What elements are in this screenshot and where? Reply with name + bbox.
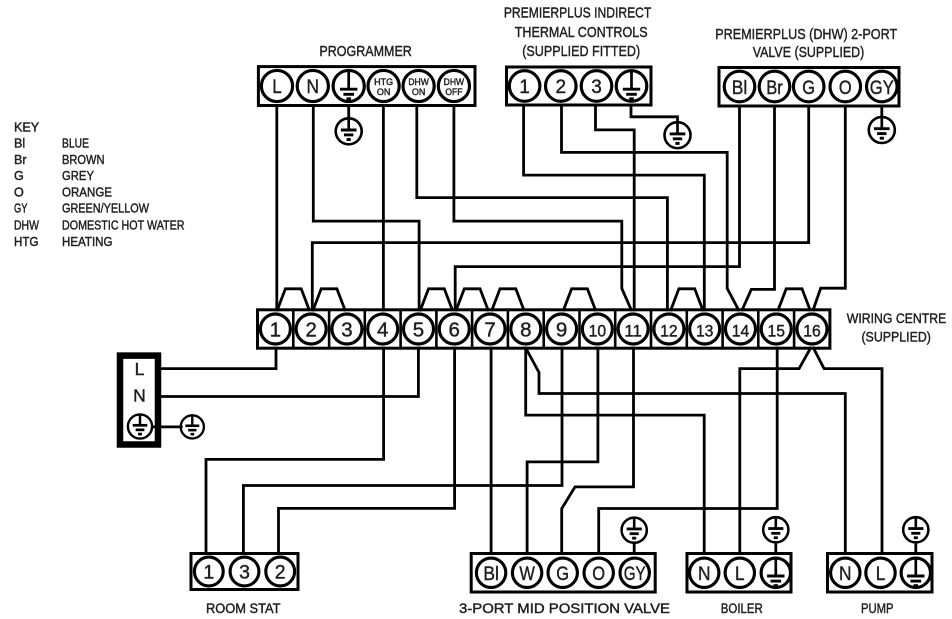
svg-text:(SUPPLIED): (SUPPLIED) (861, 329, 931, 344)
wire thermal 3 to terminal 11 (596, 105, 635, 310)
earth symbol below programmer (347, 106, 350, 119)
wire terminal 16 to boiler L (740, 348, 811, 553)
thermal terminal 3 (581, 71, 612, 102)
3-port valve box (471, 554, 655, 593)
svg-text:OFF: OFF (445, 87, 462, 97)
wiring centre terminal 7 (475, 314, 505, 344)
wiring centre terminal 1 (260, 314, 290, 344)
earth symbol below 2-port valve GY (880, 106, 883, 117)
svg-text:L: L (135, 359, 145, 379)
svg-text:G: G (14, 169, 24, 183)
room stat box (191, 554, 298, 590)
wire programmer DHW OFF to terminal 11 (454, 106, 631, 310)
svg-text:BROWN: BROWN (62, 153, 105, 167)
svg-text:Bl: Bl (732, 77, 748, 99)
2-port valve terminal Br (759, 71, 790, 102)
link terminal 7 to terminal 8 (492, 289, 524, 310)
wiring centre terminal 2 (296, 314, 326, 344)
svg-text:3-PORT MID POSITION VALVE: 3-PORT MID POSITION VALVE (459, 601, 670, 616)
svg-text:15: 15 (767, 323, 785, 341)
programmer terminal DHW OFF (438, 70, 469, 101)
link terminal 1 to terminal 2 (277, 289, 309, 310)
svg-text:3: 3 (591, 77, 602, 98)
svg-text:7: 7 (484, 319, 495, 342)
programmer terminal N (297, 70, 328, 101)
svg-text:9: 9 (556, 319, 567, 342)
svg-text:VALVE (SUPPLIED): VALVE (SUPPLIED) (753, 44, 865, 61)
mains earth terminal (128, 414, 152, 438)
mains supply box (120, 356, 158, 445)
wiring centre terminal 8 (511, 314, 541, 344)
wiring centre terminal 10 (582, 314, 612, 344)
pump box (828, 554, 933, 593)
svg-text:5: 5 (413, 319, 424, 342)
wire valve G to terminal 2 (312, 106, 808, 310)
link terminal 9 to terminal 10 (564, 289, 596, 310)
wire terminal 9 to room stat 3 (243, 348, 562, 553)
pump terminal L (866, 558, 895, 587)
svg-text:2: 2 (305, 319, 316, 342)
programmer terminal DHW ON (403, 70, 434, 101)
wire valve Bl to terminal 6 (455, 106, 739, 310)
room stat terminal 1 (194, 557, 223, 586)
wiring centre terminal 6 (439, 314, 469, 344)
svg-text:HTG: HTG (374, 77, 393, 87)
3-port valve terminal O (584, 558, 613, 587)
wiring centre terminal 9 (547, 314, 577, 344)
link terminal 15 to terminal 16 (778, 289, 810, 310)
pump earth terminal (901, 558, 930, 587)
wire terminal 8 to boiler N (526, 348, 705, 553)
boiler terminal L (725, 558, 754, 587)
svg-text:N: N (698, 563, 711, 585)
svg-text:PUMP: PUMP (861, 601, 894, 616)
svg-text:Bl: Bl (14, 137, 25, 151)
wire programmer N to terminal 5 (313, 106, 419, 310)
3-port valve terminal W (512, 558, 541, 587)
wire programmer L to terminal 1 (275, 106, 278, 310)
svg-text:HEATING: HEATING (62, 235, 113, 249)
svg-text:BOILER: BOILER (721, 601, 763, 616)
room stat terminal 3 (230, 557, 259, 586)
wiring centre terminal 5 (403, 314, 433, 344)
2-port valve terminal Bl (724, 71, 755, 102)
link terminal 5 to terminal 6 (421, 289, 453, 310)
programmer terminal L (261, 70, 292, 101)
svg-text:ON: ON (412, 87, 426, 97)
wiring centre terminal 14 (725, 314, 755, 344)
svg-text:GREY: GREY (62, 169, 95, 183)
wiring centre terminal 3 (332, 314, 362, 344)
link terminal 12 to terminal 13 (671, 289, 703, 310)
svg-text:1: 1 (270, 319, 281, 342)
label PREMIERPLUS (DHW) 2-PORT VALVE (SUPPLIED) (715, 26, 897, 61)
svg-text:O: O (14, 185, 24, 199)
wire terminal 11 to 3-port valve G (562, 348, 634, 553)
earth symbol above boiler (763, 517, 788, 542)
svg-text:W: W (519, 563, 535, 585)
svg-text:N: N (307, 77, 320, 98)
boiler earth terminal (761, 558, 790, 587)
wiring centre terminal 15 (761, 314, 791, 344)
svg-text:3: 3 (239, 562, 250, 584)
wiring centre terminal 13 (690, 314, 720, 344)
svg-text:GREEN/YELLOW: GREEN/YELLOW (62, 202, 149, 216)
svg-text:2: 2 (275, 562, 286, 584)
svg-text:1: 1 (519, 77, 530, 98)
pump terminal N (831, 558, 860, 587)
svg-text:HTG: HTG (14, 235, 39, 249)
earth symbol beside mains box (152, 425, 181, 428)
svg-text:PREMIERPLUS INDIRECT: PREMIERPLUS INDIRECT (504, 5, 652, 22)
wire terminal 4 to room stat 1 (206, 348, 384, 553)
wiring centre terminal 11 (618, 314, 648, 344)
link terminal 6 to terminal 7 (456, 289, 488, 310)
label PREMIERPLUS INDIRECT THERMAL CONTROLS (SUPPLIED FITTED) (504, 5, 652, 61)
wire thermal 2 to terminal 14 (562, 105, 739, 310)
3-port valve terminal GY (620, 558, 649, 587)
svg-text:DHW: DHW (408, 77, 429, 87)
wiring centre terminal strip (258, 310, 830, 348)
svg-text:6: 6 (449, 319, 460, 342)
svg-text:2: 2 (556, 77, 567, 98)
svg-text:4: 4 (377, 319, 388, 342)
svg-text:Br: Br (14, 153, 27, 167)
boiler terminal N (690, 558, 719, 587)
earth symbol above pump (903, 517, 928, 542)
svg-text:ON: ON (377, 87, 391, 97)
svg-text:BLUE: BLUE (62, 137, 89, 151)
thermal controls terminal box (507, 67, 652, 105)
wire thermal 1 to terminal 13 (524, 105, 705, 310)
svg-text:WIRING CENTRE: WIRING CENTRE (847, 311, 947, 326)
key legend (14, 121, 185, 249)
boiler box (687, 554, 791, 593)
thermal terminal 2 (546, 71, 577, 102)
svg-text:14: 14 (732, 323, 750, 341)
svg-text:N: N (133, 385, 146, 405)
svg-text:L: L (876, 563, 886, 585)
wire mains N to terminal 5 (158, 348, 418, 396)
svg-text:8: 8 (520, 319, 531, 342)
svg-text:ORANGE: ORANGE (62, 185, 112, 199)
svg-text:1: 1 (203, 562, 214, 584)
svg-text:G: G (556, 563, 569, 585)
2-port valve terminal O (830, 71, 861, 102)
svg-text:O: O (592, 563, 605, 585)
programmer terminal box (258, 67, 475, 106)
3-port valve terminal G (548, 558, 577, 587)
svg-text:THERMAL CONTROLS: THERMAL CONTROLS (515, 24, 648, 41)
wire valve Br to terminal 14 (742, 106, 774, 310)
programmer terminal HTG ON (368, 70, 399, 101)
wire terminal 7 to 3-port valve Bl (490, 348, 493, 553)
wire terminal 10 to 3-port valve W (527, 348, 598, 553)
label WIRING CENTRE (SUPPLIED) (847, 311, 947, 344)
wire valve O to terminal 16 (813, 106, 845, 310)
svg-text:11: 11 (624, 323, 642, 341)
earth symbol above 3-port valve GY (622, 518, 647, 543)
wire mains L to terminal 1 (158, 348, 276, 368)
svg-text:10: 10 (589, 323, 607, 341)
svg-text:GY: GY (14, 202, 28, 216)
thermal earth terminal (616, 71, 647, 102)
svg-text:PROGRAMMER: PROGRAMMER (319, 43, 412, 60)
svg-text:O: O (839, 77, 852, 99)
svg-text:KEY: KEY (14, 121, 40, 135)
svg-text:16: 16 (803, 323, 821, 341)
svg-text:PREMIERPLUS (DHW) 2-PORT: PREMIERPLUS (DHW) 2-PORT (715, 26, 897, 43)
svg-text:3: 3 (341, 319, 352, 342)
svg-text:L: L (272, 77, 282, 98)
svg-text:L: L (735, 563, 745, 585)
2-port valve terminal box (719, 68, 899, 107)
svg-text:(SUPPLIED FITTED): (SUPPLIED FITTED) (522, 43, 640, 60)
svg-text:G: G (802, 77, 815, 99)
svg-text:13: 13 (696, 323, 714, 341)
wire programmer DHW ON to terminal 12 (417, 106, 668, 310)
earth symbol for thermal controls (631, 105, 678, 122)
svg-text:ROOM STAT: ROOM STAT (206, 601, 281, 616)
svg-text:DOMESTIC HOT WATER: DOMESTIC HOT WATER (62, 219, 185, 233)
3-port valve terminal Bl (476, 558, 505, 587)
svg-text:Bl: Bl (483, 563, 499, 585)
svg-text:Br: Br (766, 77, 783, 99)
svg-text:12: 12 (660, 323, 678, 341)
wiring centre terminal 16 (797, 314, 827, 344)
wiring centre terminal 12 (654, 314, 684, 344)
svg-text:GY: GY (624, 563, 646, 585)
svg-text:N: N (839, 563, 852, 585)
svg-text:GY: GY (870, 77, 894, 99)
wire terminal 6 to room stat 2 (279, 348, 455, 553)
svg-text:DHW: DHW (444, 77, 465, 87)
wire terminal 8 branch to pump N (526, 349, 845, 554)
wire programmer HTG ON to terminal 4 (382, 106, 385, 310)
wire terminal 15 to 3-port valve O (599, 348, 778, 553)
link terminal 2 to terminal 3 (313, 289, 345, 310)
wire terminal 16 to pump L (814, 348, 883, 553)
wiring centre terminal 4 (368, 314, 398, 344)
svg-text:DHW: DHW (14, 219, 39, 233)
thermal terminal 1 (509, 71, 540, 102)
2-port valve terminal G (793, 71, 824, 102)
room stat terminal 2 (266, 557, 295, 586)
2-port valve terminal GY (867, 71, 898, 102)
programmer earth terminal (333, 70, 364, 101)
